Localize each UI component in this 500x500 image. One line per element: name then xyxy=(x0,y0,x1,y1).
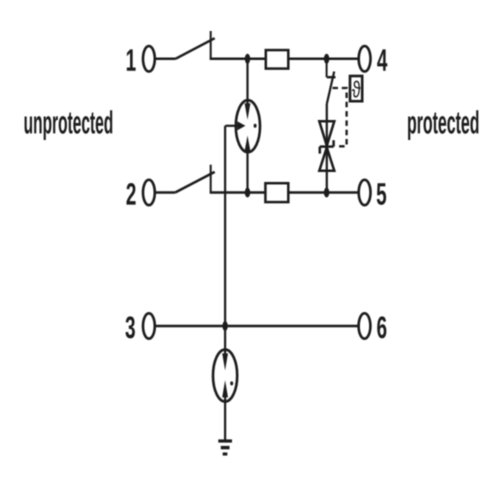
switch S2 fixed contact xyxy=(210,165,212,193)
wire switch1 to resistor R1 xyxy=(210,58,266,61)
node junction line1 / suppressor branch xyxy=(324,54,329,64)
switch S1 fixed contact xyxy=(210,31,212,59)
cathode bar left tick down xyxy=(319,147,322,154)
ground bar 3 xyxy=(223,452,228,455)
earth ground symbol xyxy=(218,441,232,454)
wire line3 down to F2 xyxy=(224,326,226,354)
ground bar 1 xyxy=(218,439,232,442)
gas discharge tube F1 (3-electrode) xyxy=(225,59,260,193)
label protected xyxy=(408,110,478,140)
wire terminal 3 to terminal 6 xyxy=(155,325,359,328)
cathode bar right tick up xyxy=(332,140,335,146)
wire blade to suppressor and through to line2 xyxy=(326,104,328,193)
wire switch2 to resistor R2 xyxy=(210,191,266,194)
fixed contact bar xyxy=(327,76,336,78)
wire line1 junction down to contact xyxy=(326,59,328,77)
wire F1 side electrode down to line3 (crosses line2) xyxy=(224,126,226,326)
wire terminal2 to switch2 xyxy=(155,191,175,194)
ground bar 2 xyxy=(221,446,230,449)
suppressor diode (bidirectional TVS) xyxy=(319,121,334,171)
node junction line1 / GDT branch xyxy=(245,54,250,64)
F2 gas-filled dot xyxy=(230,381,233,385)
wire terminal1 to switch1 xyxy=(155,58,176,61)
dashed link blade to thermal sensor xyxy=(333,88,347,146)
disconnect blade xyxy=(327,72,334,105)
terminal 4 xyxy=(359,46,371,71)
F1 side electrode arrowhead xyxy=(237,121,245,130)
switch S2 blade xyxy=(175,172,215,193)
pin label 5 xyxy=(377,183,386,205)
terminal 1 xyxy=(143,46,155,71)
F2 top electrode arrow xyxy=(222,353,228,370)
F1 top electrode arrow xyxy=(245,103,251,120)
wire resistor R2 to terminal 5 xyxy=(288,191,358,194)
pin label 6 xyxy=(377,316,386,338)
terminal 6 xyxy=(359,313,371,338)
wire resistor R1 to terminal 4 xyxy=(288,58,358,61)
resistor R2 xyxy=(265,183,288,202)
pin label 4 xyxy=(377,49,387,70)
thermal disconnect switch xyxy=(327,59,336,104)
gas discharge tube F2 (2-electrode) xyxy=(213,326,237,440)
resistor R1 xyxy=(266,50,289,69)
top diode triangle xyxy=(319,121,334,145)
F1 envelope xyxy=(236,100,260,152)
terminal 2 xyxy=(143,180,155,205)
node junction line2 / suppressor branch xyxy=(324,188,329,198)
terminal 3 xyxy=(143,313,155,338)
bottom diode triangle xyxy=(319,148,334,171)
pin label 3 xyxy=(125,316,134,338)
wire line1 down to F1 top electrode xyxy=(246,59,248,104)
terminal 5 xyxy=(359,180,371,205)
node junction line3 / earth branch xyxy=(222,321,227,331)
F2 envelope xyxy=(213,350,237,402)
wire F1 bottom electrode to line2 xyxy=(246,151,248,193)
F1 bottom electrode arrow xyxy=(245,136,251,152)
switch S1 blade xyxy=(176,38,215,59)
F1 gas-filled dot xyxy=(254,124,257,128)
F2 bottom electrode arrow xyxy=(222,380,228,397)
F1 side electrode wire xyxy=(225,125,237,127)
thermal sensor box xyxy=(350,76,362,101)
wire F2 to earth xyxy=(224,397,226,440)
theta symbol xyxy=(352,81,361,98)
node junction line2 / GDT branch xyxy=(245,188,250,198)
pin label 1 xyxy=(127,49,136,70)
shared cathode bar xyxy=(320,145,334,148)
pin label 2 xyxy=(126,183,135,205)
label unprotected xyxy=(25,110,113,140)
